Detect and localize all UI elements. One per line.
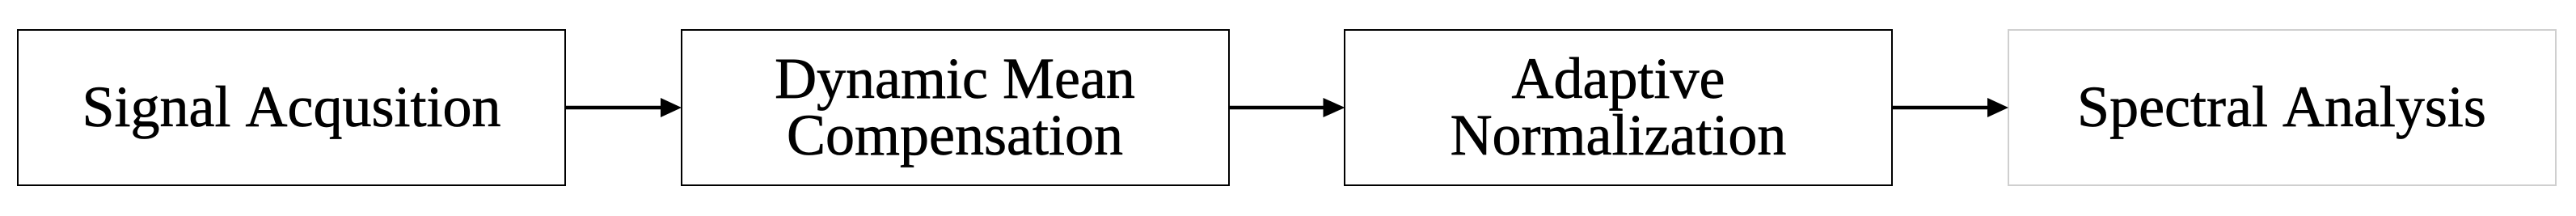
wire: arrow box3 to box4: [1893, 98, 2008, 117]
block: Adaptive Normalization: [1344, 29, 1893, 186]
block: Dynamic Mean Compensation: [681, 29, 1230, 186]
wire: arrow box1 to box2: [565, 98, 682, 117]
wire: arrow box2 to box3: [1229, 98, 1345, 117]
block: Spectral Analysis: [2008, 29, 2557, 186]
block: Signal Acqusition: [17, 29, 566, 186]
